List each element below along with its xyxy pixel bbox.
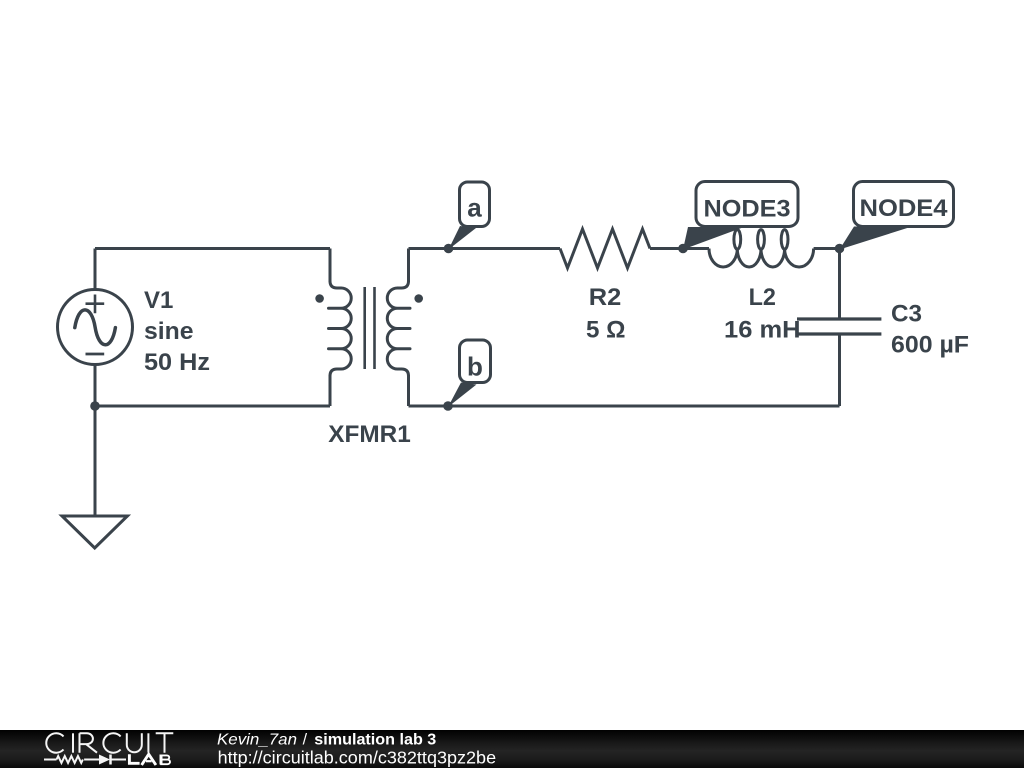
svg-text:L2: L2 — [749, 284, 776, 311]
svg-text:simulation lab 3: simulation lab 3 — [314, 731, 436, 748]
svg-text:5 Ω: 5 Ω — [586, 316, 626, 343]
svg-text:V1: V1 — [144, 287, 173, 314]
svg-text:XFMR1: XFMR1 — [328, 421, 411, 448]
svg-text:/: / — [303, 731, 308, 748]
svg-text:NODE4: NODE4 — [860, 195, 949, 222]
svg-text:Kevin_7an: Kevin_7an — [217, 731, 297, 748]
svg-text:a: a — [467, 193, 482, 223]
svg-text:b: b — [467, 352, 483, 382]
svg-text:R2: R2 — [589, 284, 622, 311]
svg-text:NODE3: NODE3 — [704, 195, 791, 222]
svg-text:50 Hz: 50 Hz — [144, 349, 210, 376]
svg-text:http://circuitlab.com/c382ttq3: http://circuitlab.com/c382ttq3pz2be — [218, 748, 497, 768]
svg-text:C3: C3 — [891, 301, 922, 328]
svg-text:sine: sine — [144, 318, 194, 345]
svg-text:16 mH: 16 mH — [724, 316, 801, 343]
svg-text:600 µF: 600 µF — [891, 332, 969, 359]
